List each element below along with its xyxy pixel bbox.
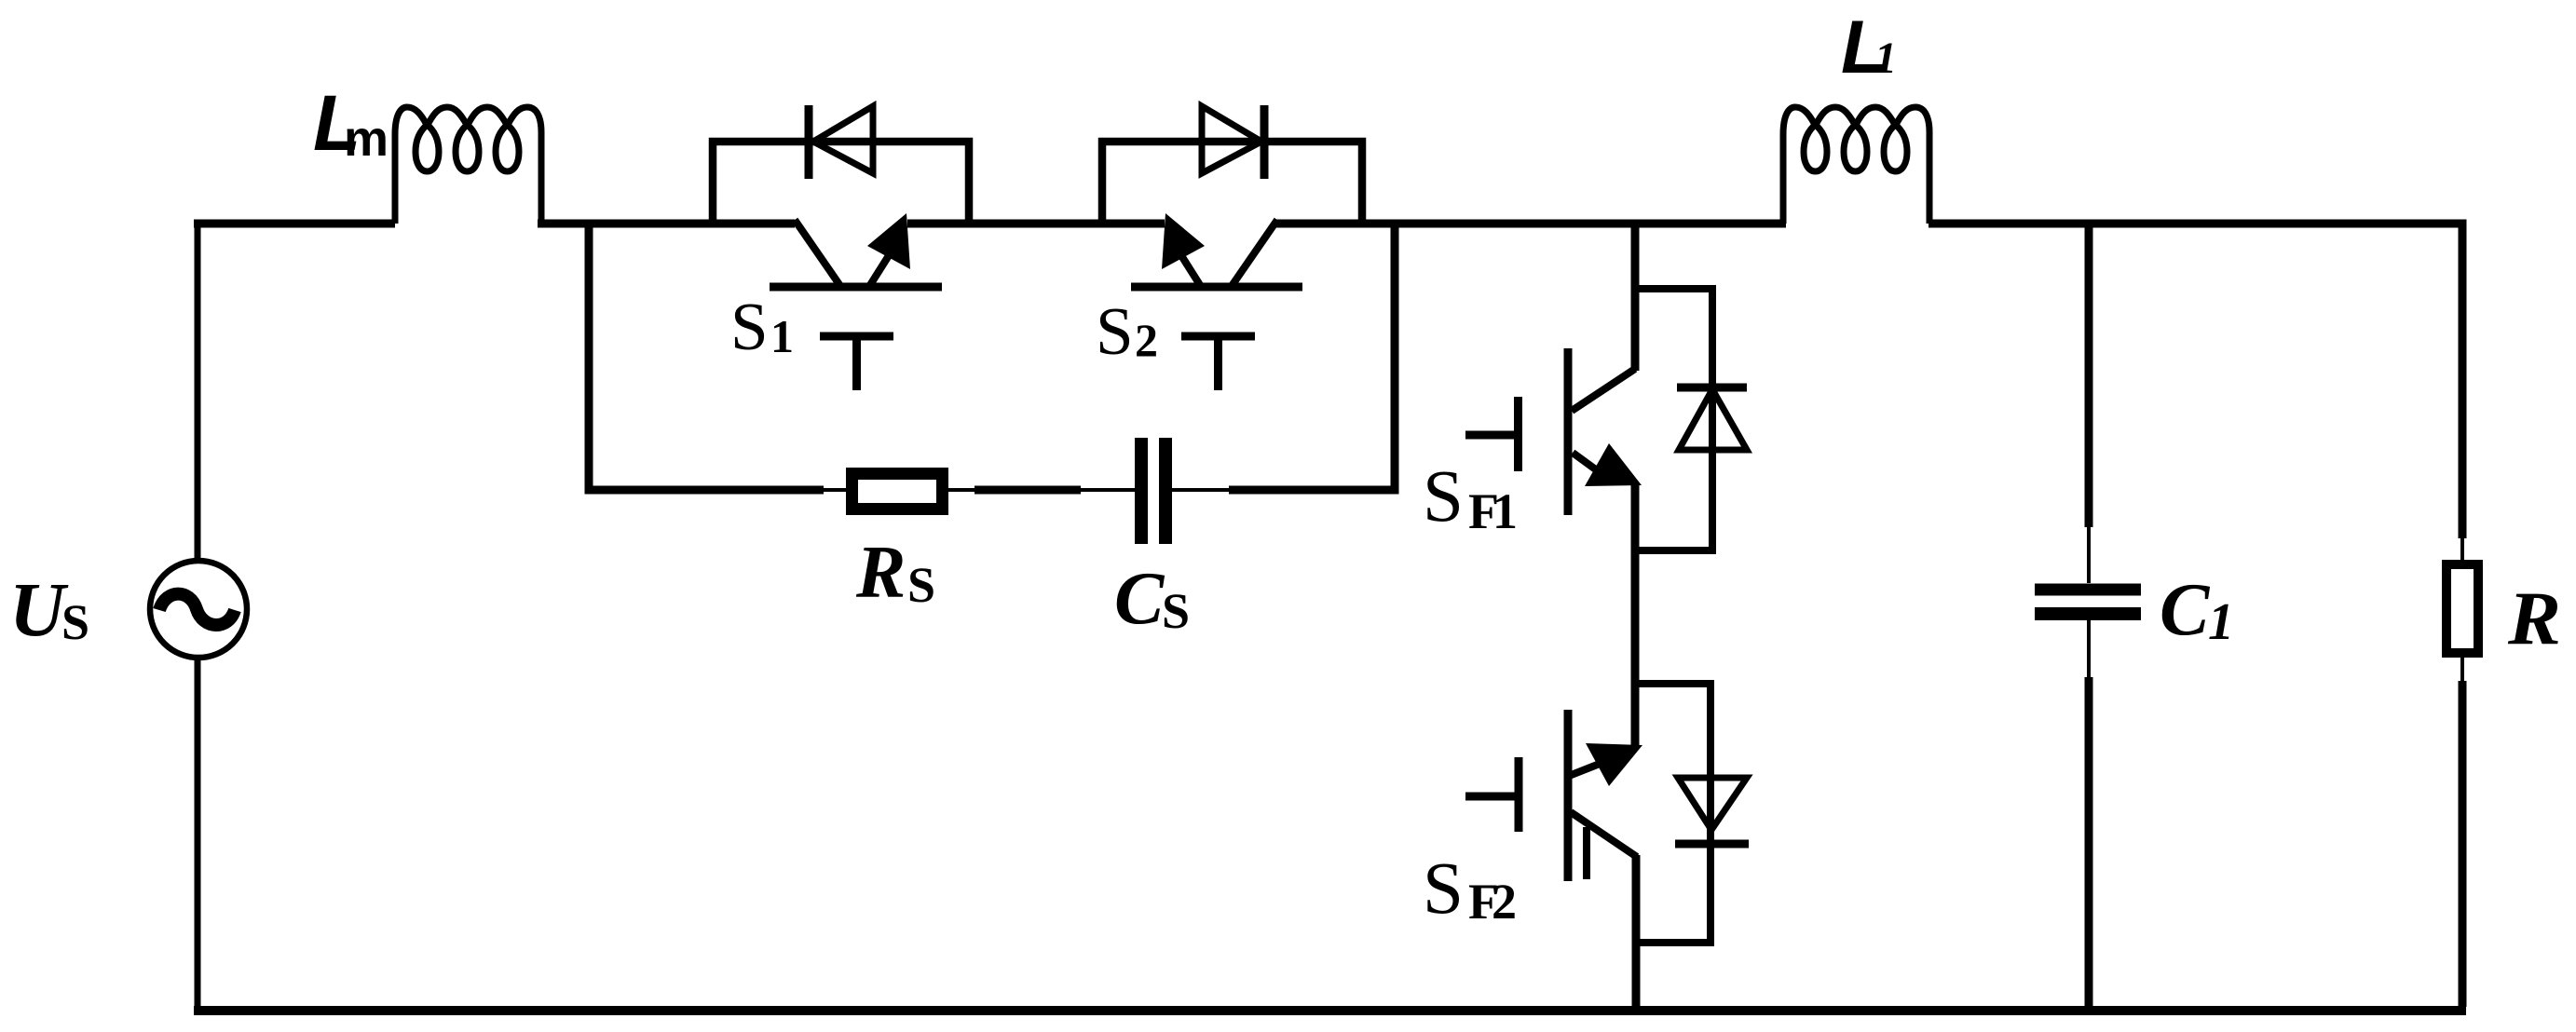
svg-text:1: 1 bbox=[2208, 593, 2234, 651]
svg-text:R: R bbox=[855, 532, 906, 614]
svg-text:2: 2 bbox=[1135, 314, 1158, 366]
svg-text:S: S bbox=[1162, 583, 1190, 639]
svg-text:C: C bbox=[2160, 569, 2211, 651]
svg-text:S: S bbox=[61, 594, 89, 650]
svg-text:R: R bbox=[2507, 576, 2561, 660]
svg-text:S: S bbox=[730, 289, 769, 364]
svg-text:1: 1 bbox=[770, 310, 794, 362]
svg-text:S: S bbox=[1423, 456, 1464, 537]
svg-text:S: S bbox=[1096, 293, 1134, 369]
svg-text:1: 1 bbox=[1874, 34, 1897, 83]
svg-text:F2: F2 bbox=[1468, 874, 1517, 930]
svg-text:C: C bbox=[1114, 558, 1165, 640]
svg-text:S: S bbox=[1423, 849, 1464, 930]
svg-text:S: S bbox=[907, 557, 935, 613]
svg-text:m: m bbox=[344, 111, 388, 167]
svg-text:F1: F1 bbox=[1468, 483, 1518, 539]
svg-text:U: U bbox=[9, 566, 69, 652]
